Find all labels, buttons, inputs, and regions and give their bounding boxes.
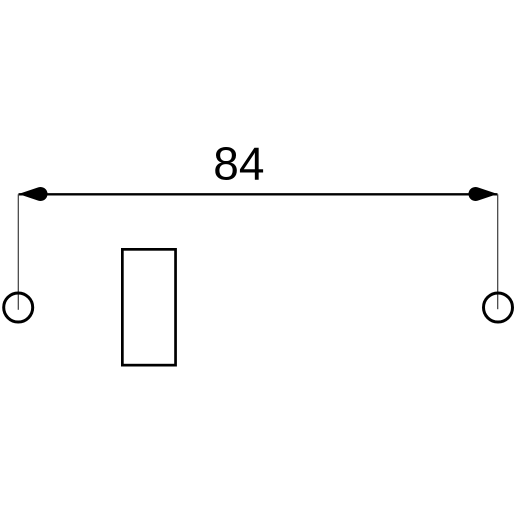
svg-text:84: 84: [213, 137, 264, 189]
